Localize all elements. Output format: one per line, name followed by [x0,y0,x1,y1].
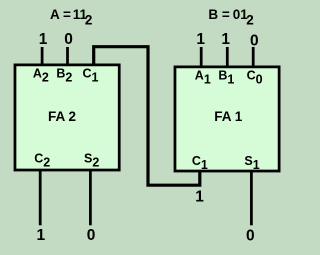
svg-text:2: 2 [85,12,93,27]
svg-text:1: 1 [36,227,45,244]
svg-text:1: 1 [196,31,205,48]
svg-text:1: 1 [221,31,230,48]
svg-text:1: 1 [195,189,204,206]
svg-text:FA 2: FA 2 [48,109,76,124]
svg-text:0: 0 [250,33,259,50]
svg-text:0: 0 [87,227,96,244]
svg-text:1: 1 [39,31,48,48]
svg-text:0: 0 [246,227,255,244]
svg-text:FA 1: FA 1 [214,109,243,124]
svg-text:B =: B = [208,7,230,22]
svg-text:0: 0 [64,31,73,48]
svg-text:A =: A = [50,7,71,22]
svg-text:2: 2 [246,12,254,27]
